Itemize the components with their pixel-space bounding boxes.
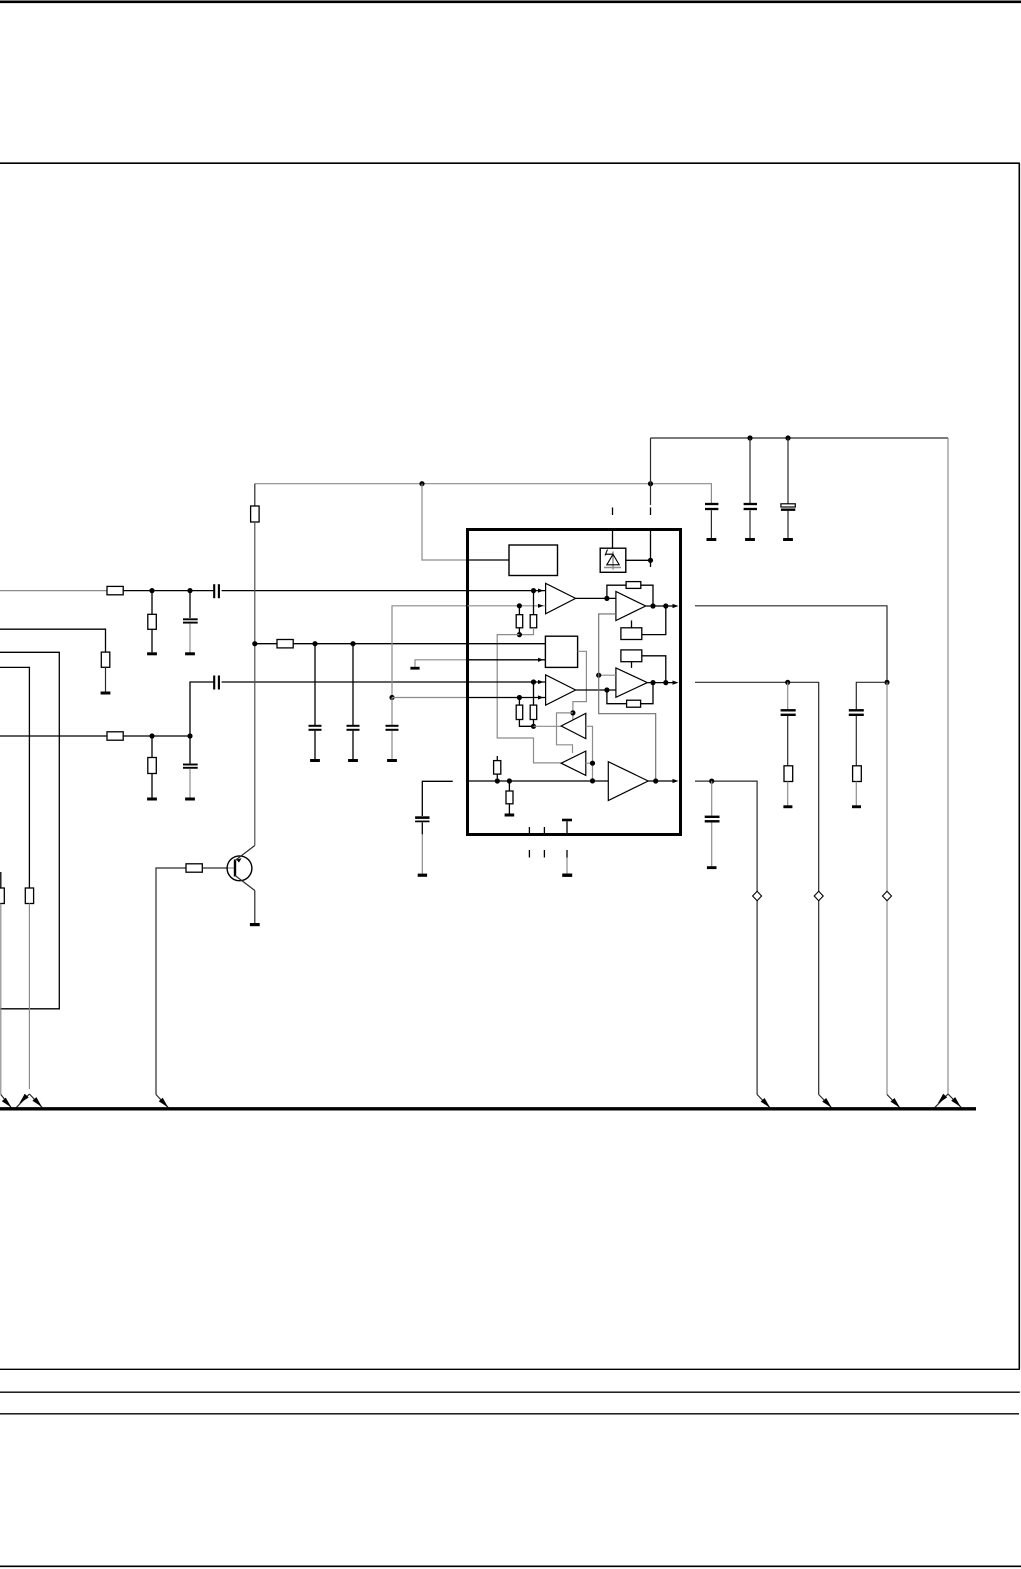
capacitor C13 bbox=[711, 781, 713, 816]
BUS bbox=[0, 1107, 976, 1110]
pin arrow bbox=[538, 680, 544, 684]
resistor Rb bbox=[533, 591, 535, 615]
pin arrow bbox=[538, 695, 544, 699]
ground bar bbox=[185, 652, 195, 655]
wire net1 to IC bbox=[222, 590, 468, 592]
wire gnd stub net bbox=[415, 660, 468, 667]
node vcc-b bbox=[648, 481, 653, 486]
wire vcc drop to IC pin bbox=[422, 484, 468, 560]
arrow out1 bus bbox=[887, 1095, 900, 1109]
op-amp A2 bbox=[616, 592, 646, 621]
wire buffer outputs bbox=[586, 726, 593, 781]
node bufout bbox=[590, 761, 595, 766]
resistor Rf bbox=[508, 781, 510, 791]
wire top supply net bbox=[651, 437, 949, 439]
node sup-b bbox=[785, 435, 790, 440]
wire to gnd bbox=[566, 858, 568, 874]
capacitor C6 bbox=[352, 644, 354, 725]
diamond connector 3 bbox=[883, 891, 892, 900]
arrow into bus bbox=[156, 1095, 168, 1108]
ground bar bbox=[250, 923, 260, 926]
wire pin line bbox=[468, 780, 609, 782]
zener D1 symbol bbox=[612, 552, 614, 570]
top rule bbox=[0, 0, 1021, 3]
wire vcc rail bbox=[255, 483, 712, 485]
buffer B2 bbox=[561, 751, 586, 775]
diamond connector 2 bbox=[814, 891, 823, 900]
node bbox=[604, 687, 609, 692]
ground bus bbox=[0, 1107, 976, 1110]
node sup-a bbox=[747, 435, 752, 440]
node n5b bbox=[187, 733, 192, 738]
wire A4 in+ bbox=[468, 681, 546, 683]
wire A1 in+ bbox=[468, 590, 546, 592]
capacitor C8 bbox=[710, 484, 712, 503]
wire out2 bbox=[695, 682, 819, 1094]
feedback Rfb2 bbox=[607, 585, 626, 598]
node bbox=[653, 778, 658, 783]
wire bias to IC bbox=[293, 643, 467, 645]
wire out1 bbox=[695, 606, 887, 683]
diamond connector 1 bbox=[753, 891, 762, 900]
wire net5 up to series cap bbox=[190, 682, 214, 736]
node bbox=[663, 680, 668, 685]
node buf bbox=[570, 710, 575, 715]
wire net5 to IC bbox=[222, 681, 468, 683]
wire net1 to cap bbox=[123, 590, 213, 592]
pin dash B bbox=[612, 508, 614, 516]
wire A4 in- bbox=[468, 697, 546, 699]
capacitor C3 to gnd bbox=[189, 736, 191, 764]
wire buf stair bbox=[557, 713, 573, 753]
node bbox=[517, 695, 522, 700]
pin dash p1 bbox=[528, 827, 530, 835]
node bbox=[604, 596, 609, 601]
wire input net2 bbox=[0, 629, 106, 652]
node n1a bbox=[149, 588, 154, 593]
node out3 bbox=[709, 779, 714, 784]
node bias-b bbox=[350, 641, 355, 646]
RIGHT bbox=[695, 606, 961, 1108]
resistor R7 base bbox=[186, 864, 202, 872]
wire base bbox=[202, 867, 227, 869]
capacitor C2 to gnd bbox=[189, 591, 191, 618]
node bias-a bbox=[312, 641, 317, 646]
buffer B1 bbox=[561, 713, 586, 738]
feedback Rfb3 bbox=[607, 690, 627, 704]
transistor Q1 bbox=[227, 856, 252, 881]
gain network A2 bbox=[631, 621, 633, 628]
node n1b bbox=[187, 588, 192, 593]
ground bar bbox=[387, 759, 397, 762]
node bbox=[531, 679, 536, 684]
ground bar bbox=[562, 874, 572, 877]
node bbox=[650, 680, 655, 685]
resistor Ra bbox=[518, 606, 520, 615]
op-amp A1 bbox=[546, 583, 576, 614]
pin arrow out bbox=[673, 681, 679, 685]
node bufin bbox=[531, 724, 536, 729]
resistor R11 bbox=[853, 766, 862, 782]
ground bar small bbox=[410, 667, 419, 670]
title block rule 2 bbox=[0, 1413, 1019, 1415]
block regulator bbox=[509, 545, 558, 576]
wire A3 out bbox=[647, 682, 674, 684]
wire block2 in2 bbox=[468, 659, 546, 661]
ground bar bbox=[310, 759, 320, 762]
resistor R3 bbox=[101, 652, 110, 667]
terminal bar bbox=[707, 538, 717, 541]
capacitor C9 bbox=[749, 438, 751, 503]
wire R4 to bus bbox=[28, 904, 30, 1090]
wire top pin into zener bbox=[612, 530, 614, 549]
op-amp A4 bbox=[546, 675, 576, 705]
resistor R0 at page edge bbox=[0, 872, 2, 888]
pin arrow bbox=[538, 658, 544, 662]
zener D1 box bbox=[600, 548, 626, 572]
arrow out3 bus bbox=[757, 1095, 770, 1109]
node bbox=[517, 603, 522, 608]
power T pin bbox=[562, 819, 572, 822]
node Rnet bbox=[517, 632, 522, 637]
ground bar bbox=[101, 692, 111, 695]
node n5a bbox=[149, 733, 154, 738]
wire block2 out gray bbox=[573, 651, 587, 719]
collector arrow bbox=[237, 858, 242, 863]
resistor R2 to gnd bbox=[151, 591, 153, 615]
node bbox=[596, 673, 601, 678]
wire input net4 bbox=[0, 667, 29, 888]
op-amp U1 box bbox=[468, 530, 681, 835]
gray bias rail bbox=[599, 614, 656, 781]
resistor R6 to gnd bbox=[151, 736, 153, 758]
arrow into bus left bbox=[16, 1094, 29, 1107]
wire block2 in1 bbox=[468, 643, 546, 645]
wire pinline stub left bbox=[422, 781, 452, 816]
pin arrow out bbox=[673, 779, 679, 783]
node zener bbox=[648, 558, 653, 563]
wire bbox=[105, 667, 107, 691]
capacitor C14 bbox=[415, 816, 429, 819]
node bbox=[650, 603, 655, 608]
wire bbox=[189, 624, 191, 653]
gain network A3 bbox=[621, 650, 642, 662]
terminal bar bbox=[745, 538, 755, 541]
pin arrow bbox=[538, 589, 544, 593]
wire collector rail bbox=[254, 522, 256, 846]
wire A1 in- bbox=[468, 605, 546, 607]
title block rule 1 bbox=[0, 1391, 1020, 1393]
terminal bar bbox=[783, 538, 793, 541]
sheet border top bbox=[0, 162, 1020, 164]
ground bar bbox=[418, 874, 427, 877]
terminal bar bbox=[852, 805, 861, 808]
wire A2 out bbox=[646, 605, 674, 607]
node bbox=[495, 778, 500, 783]
arrow into bus bbox=[1, 1095, 11, 1108]
wire A4out to A3 bbox=[576, 689, 616, 691]
footer rule bbox=[0, 1565, 1021, 1567]
ground bar bbox=[147, 798, 157, 801]
ground bar bbox=[505, 814, 515, 817]
op-amp A3 bbox=[616, 668, 647, 697]
transistor Q1 base wire bbox=[156, 868, 186, 1095]
resistor R4 bbox=[25, 888, 33, 904]
resistor Rc bbox=[518, 698, 520, 706]
capacitor C1 (series) bbox=[213, 584, 215, 598]
node bbox=[531, 588, 536, 593]
node bbox=[507, 778, 512, 783]
capacitor C10 electrolytic bbox=[787, 438, 789, 504]
block2 bbox=[545, 636, 577, 667]
ground bar bbox=[147, 652, 157, 655]
wire gray drop bbox=[497, 635, 561, 763]
pin dash below bbox=[566, 850, 568, 858]
wire pin stub drop bbox=[650, 438, 652, 505]
wire zener out bbox=[626, 559, 651, 561]
terminal bar bbox=[783, 805, 792, 808]
terminal bar bbox=[707, 866, 717, 869]
wire out1 down bbox=[886, 682, 888, 1094]
TOPNET bbox=[251, 435, 948, 1094]
wire A5 out bbox=[648, 780, 674, 782]
node link bbox=[389, 695, 394, 700]
arrow supply bus double bbox=[935, 1094, 948, 1107]
wire link lower bbox=[392, 697, 468, 699]
wire input net3 loop bbox=[0, 652, 59, 1009]
LEFT-INPUTS bbox=[0, 584, 468, 1107]
wire input net5 bbox=[0, 735, 107, 737]
capacitor C4 (series) bbox=[213, 676, 215, 690]
node out2 bbox=[785, 680, 790, 685]
pin arrow out bbox=[673, 604, 679, 608]
wire to buffer1 bbox=[534, 725, 562, 727]
node bufout2 bbox=[590, 778, 595, 783]
wire A3 in+ gray bbox=[599, 674, 616, 676]
resistor R5 bbox=[107, 732, 123, 740]
wire input net1 left bbox=[0, 590, 107, 592]
wire to regulator bbox=[468, 559, 510, 561]
sheet border right bbox=[1018, 163, 1020, 1369]
resistor R1 bbox=[107, 586, 123, 594]
arrow out2 bus bbox=[819, 1095, 832, 1109]
node out1 bbox=[884, 680, 889, 685]
node bbox=[663, 603, 668, 608]
wire link net pin4-pin9 bbox=[392, 606, 468, 698]
wire top pin to node bbox=[650, 530, 652, 568]
ground bar bbox=[348, 759, 358, 762]
pin arrow bbox=[538, 604, 544, 608]
capacitor C12 bbox=[849, 709, 864, 711]
resistor R9 bias bbox=[255, 643, 277, 645]
arrow into bus right bbox=[29, 1094, 42, 1107]
node vcc-a bbox=[419, 481, 424, 486]
sheet border bottom bbox=[0, 1368, 1020, 1370]
ground bar bbox=[185, 798, 195, 801]
wire out3 bbox=[695, 781, 757, 1094]
resistor Rd bbox=[533, 682, 535, 705]
wire cap chain 2 bbox=[856, 682, 887, 709]
wire emitter to gnd bbox=[254, 891, 256, 924]
pin dash A bbox=[650, 508, 652, 516]
op-amp A5 output bbox=[608, 762, 648, 801]
resistor R10 bbox=[784, 766, 793, 782]
resistor Re bbox=[496, 756, 498, 761]
capacitor C7 bbox=[391, 698, 393, 726]
pin dash p2 bbox=[543, 827, 545, 835]
wire A1out to A2 bbox=[576, 597, 616, 599]
capacitor C11 bbox=[787, 682, 789, 709]
wire bbox=[123, 735, 190, 737]
IC bbox=[468, 530, 681, 877]
resistor R8 top bbox=[254, 484, 256, 506]
node bias bbox=[252, 641, 257, 646]
capacitor C5 bbox=[314, 644, 316, 725]
